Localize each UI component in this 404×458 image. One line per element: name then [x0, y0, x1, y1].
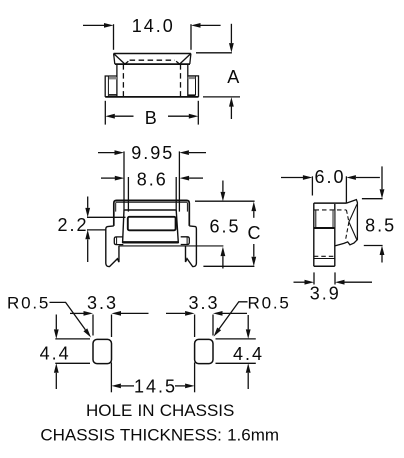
svg-text:14.0: 14.0: [132, 16, 175, 36]
svg-text:9.95: 9.95: [131, 143, 174, 163]
svg-text:3.3: 3.3: [87, 293, 118, 313]
svg-text:HOLE IN CHASSIS: HOLE IN CHASSIS: [86, 401, 234, 420]
svg-text:3.9: 3.9: [310, 284, 341, 304]
svg-text:R0.5: R0.5: [248, 293, 291, 312]
svg-text:2.2: 2.2: [57, 215, 88, 235]
svg-text:3.3: 3.3: [188, 293, 219, 313]
svg-text:R0.5: R0.5: [7, 293, 50, 312]
svg-text:C: C: [248, 223, 263, 243]
svg-text:CHASSIS THICKNESS: 1.6mm: CHASSIS THICKNESS: 1.6mm: [40, 426, 279, 445]
svg-text:14.5: 14.5: [134, 376, 177, 396]
svg-text:4.4: 4.4: [40, 343, 71, 363]
svg-text:A: A: [227, 67, 241, 87]
svg-text:B: B: [145, 108, 159, 128]
svg-text:8.6: 8.6: [137, 169, 168, 189]
svg-text:4.4: 4.4: [233, 344, 264, 364]
svg-text:6.5: 6.5: [209, 216, 240, 236]
svg-text:8.5: 8.5: [365, 215, 396, 235]
svg-text:6.0: 6.0: [314, 167, 345, 187]
